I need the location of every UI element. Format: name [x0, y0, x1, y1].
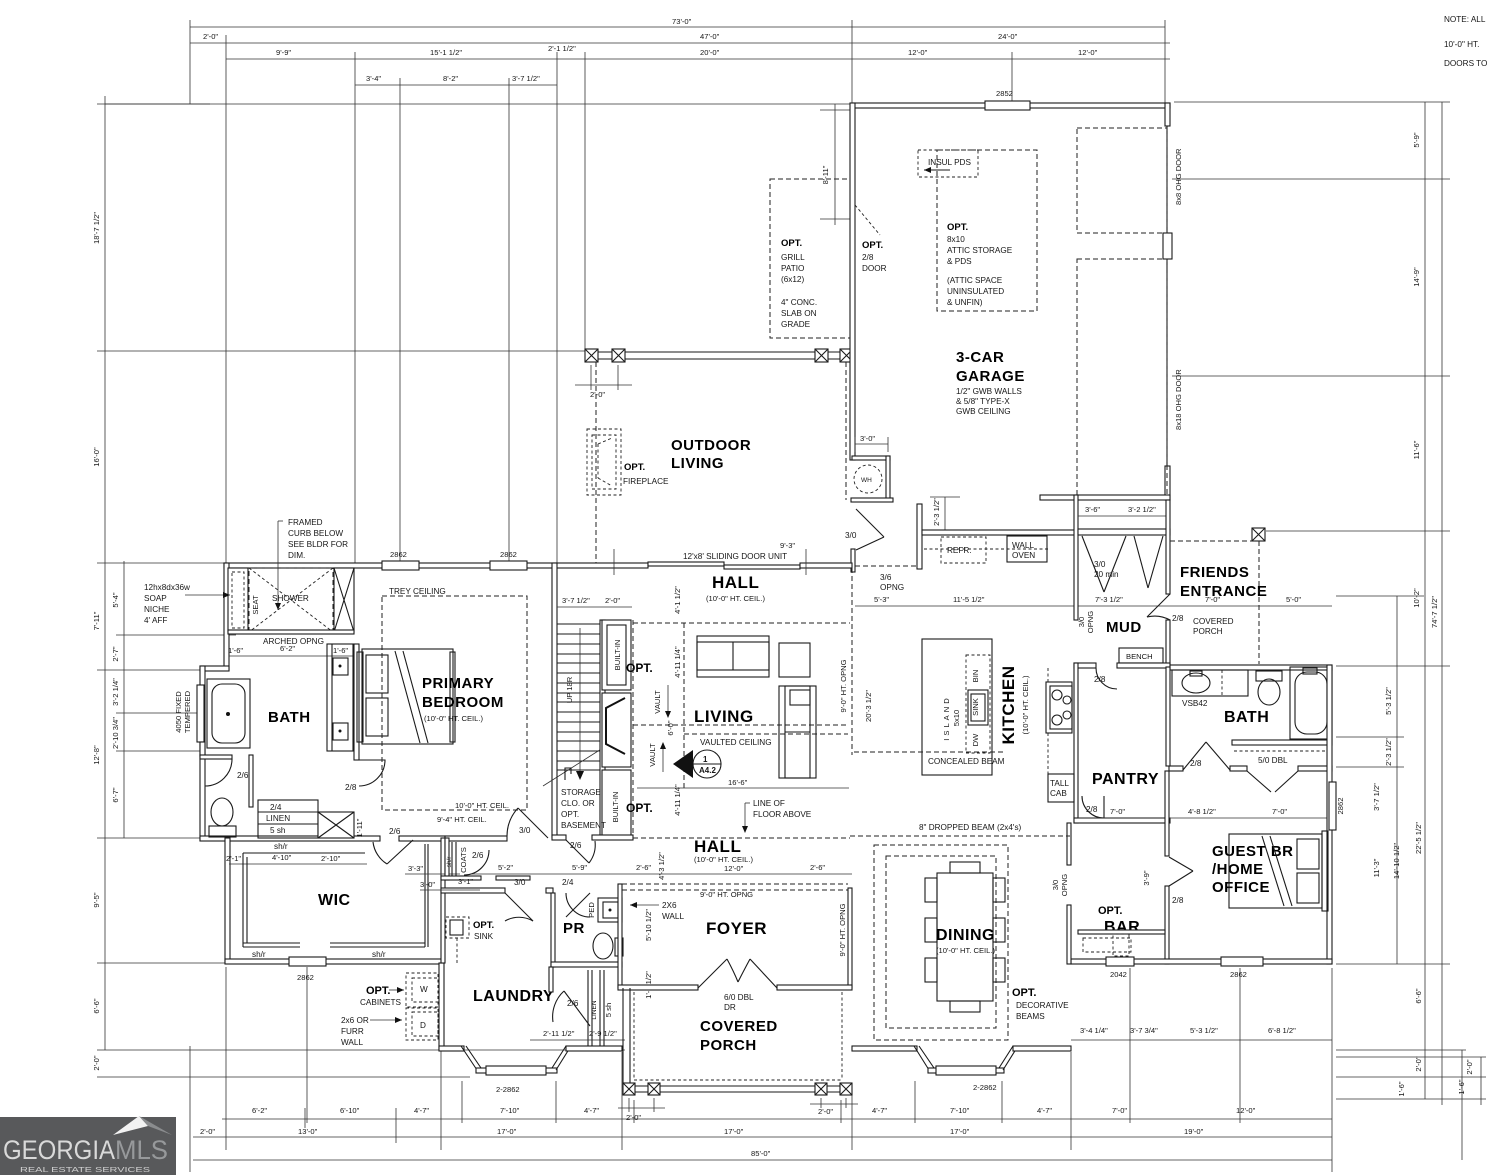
stair dims — [557, 606, 632, 608]
pantry dim row — [1078, 817, 1332, 819]
right exterior wall — [1327, 665, 1332, 964]
svg-text:7'-10": 7'-10" — [500, 1106, 520, 1115]
living opening dashed boundary — [633, 622, 850, 624]
svg-text:1'-6": 1'-6" — [228, 646, 243, 655]
svg-text:3'-2 1/4": 3'-2 1/4" — [111, 678, 120, 706]
svg-text:20'-3 1/2": 20'-3 1/2" — [864, 690, 873, 722]
top dim row 1: 73'-0" — [190, 26, 1165, 28]
svg-text:7'-0": 7'-0" — [1112, 1106, 1127, 1115]
svg-text:9'-4" HT. CEIL.: 9'-4" HT. CEIL. — [437, 815, 487, 824]
3/0 door from hall into mud (V leaf) — [856, 509, 884, 537]
svg-text:SEAT: SEAT — [251, 595, 260, 615]
svg-text:8x18 OHG DOOR: 8x18 OHG DOOR — [1174, 369, 1183, 430]
svg-text:10'-0" HT.: 10'-0" HT. — [1444, 40, 1479, 49]
bath/wic bottom wall — [200, 836, 380, 841]
svg-text:NICHE: NICHE — [144, 605, 170, 614]
16'-6" dim — [637, 787, 849, 789]
built-in lower — [602, 770, 631, 837]
island — [922, 639, 992, 775]
svg-text:3'-6": 3'-6" — [1085, 505, 1100, 514]
svg-text:2'-3 1/2": 2'-3 1/2" — [1384, 738, 1393, 766]
svg-text:9'-0" HT. OPNG: 9'-0" HT. OPNG — [700, 890, 753, 899]
svg-text:2'-11 1/2": 2'-11 1/2" — [543, 1029, 575, 1038]
svg-text:85'-0": 85'-0" — [751, 1149, 771, 1158]
opt sink — [446, 917, 469, 938]
posts — [623, 1083, 635, 1095]
svg-text:WH: WH — [861, 477, 872, 484]
svg-text:BASEMENT: BASEMENT — [561, 821, 606, 830]
tub — [207, 679, 250, 748]
svg-text:3/0: 3/0 — [1077, 617, 1086, 628]
svg-text:VAULTED CEILING: VAULTED CEILING — [700, 738, 772, 747]
bedroom east wall (shared w/ stairs) — [552, 563, 557, 837]
svg-text:D: D — [420, 1021, 426, 1030]
svg-text:LINEN: LINEN — [266, 814, 290, 823]
svg-text:12'-0": 12'-0" — [1078, 48, 1098, 57]
svg-text:5/0 DBL: 5/0 DBL — [1258, 756, 1288, 765]
svg-text:VAULT: VAULT — [653, 690, 662, 714]
refrigerator dashed — [941, 537, 986, 563]
svg-text:& 5/8" TYPE-X: & 5/8" TYPE-X — [956, 397, 1010, 406]
roof line above patio — [105, 103, 852, 105]
svg-text:STORAGE: STORAGE — [561, 788, 601, 797]
svg-text:SINK: SINK — [971, 698, 980, 716]
svg-text:7'-10": 7'-10" — [950, 1106, 970, 1115]
svg-text:5'-3": 5'-3" — [874, 595, 889, 604]
svg-text:12'-0": 12'-0" — [1236, 1106, 1256, 1115]
svg-text:3'-7 3/4": 3'-7 3/4" — [1130, 1026, 1158, 1035]
bottom extension verticals — [189, 1046, 191, 1172]
hall wall piece — [445, 836, 507, 841]
guest west wall — [1165, 771, 1169, 856]
svg-text:COVERED: COVERED — [1193, 617, 1234, 626]
svg-text:(ATTIC SPACE: (ATTIC SPACE — [947, 276, 1003, 285]
svg-text:SINK: SINK — [474, 932, 494, 941]
svg-text:9'-5": 9'-5" — [92, 892, 101, 907]
svg-text:22'-5 1/2": 22'-5 1/2" — [1414, 822, 1423, 854]
svg-text:2'-0": 2'-0" — [1414, 1056, 1423, 1071]
svg-text:6'-6": 6'-6" — [92, 998, 101, 1013]
opt fireplace dashed — [587, 429, 621, 495]
svg-text:4'-7": 4'-7" — [872, 1106, 887, 1115]
window 2852 — [985, 101, 1030, 110]
svg-text:4050 FIXED: 4050 FIXED — [174, 691, 183, 733]
svg-text:PRIMARY: PRIMARY — [422, 675, 494, 692]
svg-text:10'-0" HT. CEIL.: 10'-0" HT. CEIL. — [455, 801, 509, 810]
porch post + dashed — [1252, 528, 1265, 541]
dashed line right of built-ins — [632, 620, 634, 838]
garage top wall — [852, 103, 1170, 108]
dashed inner — [633, 992, 635, 1080]
svg-text:2'-0": 2'-0" — [203, 32, 218, 41]
svg-text:BUILT-IN: BUILT-IN — [611, 792, 620, 823]
svg-text:9'-9": 9'-9" — [276, 48, 291, 57]
svg-text:3/0: 3/0 — [1094, 560, 1106, 569]
svg-text:OPT.: OPT. — [862, 240, 883, 251]
svg-text:6'-8 1/2": 6'-8 1/2" — [1268, 1026, 1296, 1035]
insul pds dashed box — [918, 150, 978, 177]
svg-text:3/0: 3/0 — [519, 826, 531, 835]
svg-text:4'-8 1/2": 4'-8 1/2" — [1188, 807, 1216, 816]
svg-text:9'-0" HT. OPNG: 9'-0" HT. OPNG — [839, 659, 848, 712]
svg-text:ISLAND: ISLAND — [942, 695, 951, 740]
svg-text:OPT.: OPT. — [781, 238, 802, 249]
svg-text:REAL ESTATE SERVICES: REAL ESTATE SERVICES — [20, 1165, 150, 1174]
svg-text:12'-8": 12'-8" — [92, 745, 101, 765]
svg-text:FLOOR ABOVE: FLOOR ABOVE — [753, 810, 812, 819]
svg-text:2/6: 2/6 — [570, 841, 582, 850]
door 2/6 into WIC — [387, 840, 413, 864]
svg-text:2862: 2862 — [390, 550, 407, 559]
bottom wall guest wing w/ windows — [1071, 959, 1332, 964]
svg-text:ENTRANCE: ENTRANCE — [1180, 583, 1267, 600]
svg-text:BATH: BATH — [268, 709, 311, 726]
svg-text:BENCH: BENCH — [1126, 652, 1153, 661]
svg-text:FIREPLACE: FIREPLACE — [623, 477, 669, 486]
svg-text:4'-7": 4'-7" — [414, 1106, 429, 1115]
svg-text:9'-3": 9'-3" — [780, 541, 795, 550]
svg-text:CLO. OR: CLO. OR — [561, 799, 595, 808]
linen closet bottom — [258, 800, 318, 838]
built-in middle with niche — [602, 693, 631, 767]
porch boundary — [622, 988, 624, 1092]
svg-text:DOORS TO: DOORS TO — [1444, 59, 1487, 68]
garage door dashed bays — [1077, 128, 1167, 233]
svg-text:DR: DR — [724, 1003, 736, 1012]
svg-text:PATIO: PATIO — [781, 264, 804, 273]
bottom wall + bay — [852, 1046, 917, 1051]
svg-text:MUD: MUD — [1106, 619, 1142, 636]
svg-text:7'-0": 7'-0" — [1110, 807, 1125, 816]
svg-text:HALL: HALL — [694, 837, 741, 856]
svg-text:2'-10 3/4": 2'-10 3/4" — [111, 717, 120, 749]
svg-text:COATS: COATS — [459, 847, 468, 873]
kitchen east wall — [1074, 663, 1078, 823]
svg-text:4'-7": 4'-7" — [584, 1106, 599, 1115]
svg-text:(10'-0" HT. CEIL.): (10'-0" HT. CEIL.) — [424, 714, 483, 723]
svg-text:DECORATIVE: DECORATIVE — [1016, 1001, 1069, 1010]
svg-text:3-CAR: 3-CAR — [956, 349, 1004, 366]
svg-text:2-2862: 2-2862 — [496, 1085, 520, 1094]
svg-text:DOOR: DOOR — [862, 264, 887, 273]
top dim row 4: 3'-4", 8'-2", 3'-7 1/2" — [355, 84, 557, 86]
svg-text:/HOME: /HOME — [1212, 861, 1264, 878]
wall oven — [1007, 536, 1047, 562]
svg-text:1: 1 — [703, 755, 708, 764]
mud west wall — [1074, 495, 1078, 620]
svg-text:WALL: WALL — [341, 1038, 363, 1047]
svg-text:PANTRY: PANTRY — [1092, 771, 1159, 788]
stair direction arrow — [579, 628, 581, 775]
svg-text:3'-4 1/4": 3'-4 1/4" — [1080, 1026, 1108, 1035]
svg-text:sh/r: sh/r — [446, 856, 453, 868]
svg-text:2'-6": 2'-6" — [636, 863, 651, 872]
svg-text:13'-0": 13'-0" — [298, 1127, 318, 1136]
svg-text:BIN: BIN — [971, 670, 980, 683]
counter dashes — [1047, 668, 1049, 682]
svg-text:11'-5 1/2": 11'-5 1/2" — [953, 595, 985, 604]
svg-text:FRIENDS: FRIENDS — [1180, 564, 1249, 581]
svg-text:6'-6": 6'-6" — [1414, 988, 1423, 1003]
svg-text:4'-3 1/2": 4'-3 1/2" — [657, 852, 666, 880]
svg-text:3/6: 3/6 — [880, 573, 892, 582]
friends entrance wall w/ doors — [1078, 529, 1170, 535]
svg-text:2042: 2042 — [1110, 970, 1127, 979]
svg-text:PED: PED — [587, 902, 596, 918]
opt 2/8 door (dashed swing from garage wall) — [855, 205, 880, 235]
svg-text:LINE OF: LINE OF — [753, 799, 785, 808]
svg-text:VAULT: VAULT — [648, 743, 657, 767]
vanity — [327, 644, 353, 751]
svg-text:2/6: 2/6 — [237, 771, 249, 780]
svg-text:2'-6": 2'-6" — [810, 863, 825, 872]
2'-0 dims — [628, 1098, 630, 1112]
stair right wall — [600, 620, 605, 837]
svg-text:OPNG: OPNG — [880, 583, 904, 592]
svg-text:GWB CEILING: GWB CEILING — [956, 407, 1011, 416]
svg-text:4'-11 1/4": 4'-11 1/4" — [673, 784, 682, 816]
pantry — [1074, 818, 1170, 823]
svg-text:(6x12): (6x12) — [781, 275, 804, 284]
garage bottom-left wall + mud vestibule — [851, 498, 893, 502]
svg-text:DINING: DINING — [936, 927, 995, 944]
svg-text:12'-0": 12'-0" — [908, 48, 928, 57]
svg-text:GRILL: GRILL — [781, 253, 805, 262]
svg-text:5'-9": 5'-9" — [1412, 132, 1421, 147]
svg-text:5x10: 5x10 — [952, 710, 961, 726]
svg-text:2/8: 2/8 — [1086, 805, 1098, 814]
svg-text:BEAMS: BEAMS — [1016, 1012, 1045, 1021]
svg-text:5'-2": 5'-2" — [498, 863, 513, 872]
svg-text:4' AFF: 4' AFF — [144, 616, 167, 625]
svg-text:LIVING: LIVING — [671, 455, 724, 472]
mud south wall w/ 2/8 door — [1074, 663, 1096, 668]
svg-text:FOYER: FOYER — [706, 919, 767, 938]
front wall w/ double door — [618, 985, 698, 990]
hall lower walls — [441, 888, 505, 893]
svg-text:3'-0": 3'-0" — [420, 880, 435, 889]
svg-text:LIVING: LIVING — [694, 707, 754, 726]
svg-text:5'-9": 5'-9" — [572, 863, 587, 872]
svg-text:2/4: 2/4 — [562, 878, 574, 887]
bottom wall of stairs/storage w/ 2/6 door — [552, 835, 566, 840]
svg-text:NOTE: ALL: NOTE: ALL — [1444, 15, 1486, 24]
svg-text:3'-7 1/2": 3'-7 1/2" — [562, 596, 590, 605]
svg-text:WIC: WIC — [318, 892, 351, 909]
svg-text:KITCHEN: KITCHEN — [999, 665, 1018, 744]
svg-text:DIM.: DIM. — [288, 551, 305, 560]
tall cab — [1048, 774, 1074, 802]
svg-text:TREY CEILING: TREY CEILING — [389, 587, 446, 596]
svg-text:5 sh: 5 sh — [270, 826, 286, 835]
svg-text:OFFICE: OFFICE — [1212, 879, 1270, 896]
svg-text:2X6: 2X6 — [662, 901, 677, 910]
bed — [362, 649, 453, 744]
svg-text:OPT.: OPT. — [473, 920, 494, 931]
svg-text:19'-0": 19'-0" — [1184, 1127, 1204, 1136]
svg-text:SHOWER: SHOWER — [272, 594, 309, 603]
svg-text:2'-0": 2'-0" — [818, 1107, 833, 1116]
svg-text:3'-9": 3'-9" — [1142, 870, 1151, 885]
svg-text:2/8: 2/8 — [1190, 759, 1202, 768]
PR/linen wall — [551, 962, 622, 967]
tick marks at sliding door — [613, 549, 615, 575]
svg-text:PR: PR — [563, 920, 585, 937]
tub/closet wall — [1232, 740, 1332, 745]
svg-text:1'-11": 1'-11" — [355, 818, 364, 837]
svg-text:TEMPERED: TEMPERED — [183, 690, 192, 733]
svg-text:PORCH: PORCH — [1193, 627, 1223, 636]
8'-11" vertical dim — [834, 104, 836, 225]
svg-text:14'-10 1/2": 14'-10 1/2" — [1392, 843, 1401, 880]
2'-3 1/2" dim — [944, 497, 946, 530]
bottom inner dims — [1071, 1039, 1332, 1041]
svg-text:17'-0": 17'-0" — [950, 1127, 970, 1136]
patio posts — [585, 349, 598, 362]
svg-text:3'-3": 3'-3" — [408, 864, 423, 873]
shelf lines top — [243, 852, 365, 854]
svg-text:17'-0": 17'-0" — [724, 1127, 744, 1136]
svg-text:14'-9": 14'-9" — [1412, 267, 1421, 287]
svg-text:(10'-0" HT. CEIL.): (10'-0" HT. CEIL.) — [694, 855, 753, 864]
svg-text:7'-0": 7'-0" — [1272, 807, 1287, 816]
left wall lower — [200, 666, 205, 756]
built-in upper — [602, 620, 631, 690]
jog at bath — [200, 666, 229, 671]
wall dining/guest with 3/0 opening — [1067, 823, 1071, 865]
svg-text:1'-6": 1'-6" — [1397, 1081, 1406, 1096]
svg-text:5'-10 1/2": 5'-10 1/2" — [644, 909, 653, 941]
toilet — [211, 798, 233, 826]
linen closet — [549, 967, 553, 992]
opt grill patio dashed rect — [770, 179, 852, 338]
bench — [1119, 648, 1163, 663]
svg-text:2'-0": 2'-0" — [590, 390, 605, 399]
svg-text:SEE BLDR FOR: SEE BLDR FOR — [288, 540, 348, 549]
left dim vertical lines — [104, 96, 106, 1050]
svg-text:sh/r: sh/r — [372, 950, 386, 959]
svg-text:16'-6": 16'-6" — [728, 778, 748, 787]
svg-text:UNINSULATED: UNINSULATED — [947, 287, 1004, 296]
side chair — [779, 643, 810, 677]
svg-text:2'-0": 2'-0" — [1465, 1059, 1474, 1074]
sofa top — [697, 636, 769, 677]
svg-text:4'-1 1/2": 4'-1 1/2" — [673, 586, 682, 614]
WIC bottom wall with window — [225, 959, 443, 964]
svg-text:11'-3": 11'-3" — [1372, 858, 1381, 877]
svg-text:& UNFIN): & UNFIN) — [947, 298, 983, 307]
3/6 opening dashed — [855, 565, 917, 567]
svg-text:OPT.: OPT. — [626, 801, 653, 815]
garage right wall segments with door openings — [1165, 103, 1170, 126]
garage bottom wall right part — [1040, 495, 1170, 500]
svg-text:12'x8' SLIDING DOOR UNIT: 12'x8' SLIDING DOOR UNIT — [683, 552, 787, 561]
svg-text:SOAP: SOAP — [144, 594, 167, 603]
svg-text:GARAGE: GARAGE — [956, 368, 1025, 385]
garage left wall — [850, 103, 855, 460]
svg-text:3'-7 1/2": 3'-7 1/2" — [1372, 783, 1381, 811]
kitchen north wall — [922, 530, 1078, 535]
svg-text:7'-3 1/2": 7'-3 1/2" — [1095, 595, 1123, 604]
svg-text:SLAB ON: SLAB ON — [781, 309, 817, 318]
svg-text:CAB: CAB — [1050, 789, 1067, 798]
svg-text:8'-11": 8'-11" — [821, 165, 830, 184]
svg-text:4'-7": 4'-7" — [1037, 1106, 1052, 1115]
svg-text:8x10: 8x10 — [947, 235, 965, 244]
svg-text:1'-6": 1'-6" — [1457, 1079, 1466, 1094]
sofa right vertical — [779, 686, 816, 778]
svg-text:LINEN: LINEN — [591, 1000, 598, 1019]
dims — [229, 863, 367, 865]
svg-text:6'-7": 6'-7" — [111, 787, 120, 802]
svg-text:2'-1": 2'-1" — [226, 854, 241, 863]
foyer east wall — [848, 888, 852, 988]
svg-text:5'-3 1/2": 5'-3 1/2" — [1190, 1026, 1218, 1035]
window 4050 behind tub — [197, 685, 204, 742]
svg-text:1'-6": 1'-6" — [333, 646, 348, 655]
top dim row 3: 9'-9", 15'-1 1/2", 2'-1 1/2", 20'-0", 12'-0", 12'-0" — [226, 58, 1170, 60]
svg-text:2x6 OR: 2x6 OR — [341, 1016, 369, 1025]
inner shelf boundary — [242, 853, 244, 947]
PR room — [551, 893, 555, 967]
table — [937, 873, 993, 1001]
svg-text:10'-2": 10'-2" — [1412, 588, 1421, 608]
svg-text:BEDROOM: BEDROOM — [422, 694, 504, 711]
svg-text:(10'-0" HT. CEIL.): (10'-0" HT. CEIL.) — [706, 594, 765, 603]
svg-text:8'-2": 8'-2" — [443, 74, 458, 83]
svg-text:CURB BELOW: CURB BELOW — [288, 529, 343, 538]
toilet — [1256, 671, 1282, 681]
svg-text:OPT.: OPT. — [626, 661, 653, 675]
svg-text:MLS: MLS — [115, 1135, 168, 1165]
svg-text:3'-1": 3'-1" — [458, 877, 473, 886]
coats closet — [445, 838, 449, 880]
laundry bottom + bay window — [439, 1046, 464, 1051]
svg-text:GRADE: GRADE — [781, 320, 811, 329]
svg-text:3'-7 1/2": 3'-7 1/2" — [512, 74, 540, 83]
svg-text:2/8: 2/8 — [345, 783, 357, 792]
svg-text:6'-2": 6'-2" — [252, 1106, 267, 1115]
attic storage dashed box — [937, 150, 1037, 311]
svg-text:2/8: 2/8 — [1172, 896, 1184, 905]
svg-text:6'-0": 6'-0" — [666, 720, 675, 735]
laundry left wall — [439, 963, 444, 1050]
top vertical extension lines — [189, 20, 191, 104]
svg-text:3'-0": 3'-0" — [860, 434, 875, 443]
svg-text:7'-11": 7'-11" — [92, 611, 101, 630]
svg-text:(10'-0" HT. CEIL.): (10'-0" HT. CEIL.) — [936, 946, 995, 955]
svg-text:4'-11 1/4": 4'-11 1/4" — [673, 646, 682, 678]
shower dashed — [249, 568, 333, 632]
corridor dim row — [855, 605, 1332, 607]
svg-text:2'-10": 2'-10" — [321, 854, 341, 863]
svg-text:WALL: WALL — [662, 912, 684, 921]
bottom dim rows — [222, 1118, 1332, 1120]
svg-text:47'-0": 47'-0" — [700, 32, 720, 41]
svg-text:ATTIC STORAGE: ATTIC STORAGE — [947, 246, 1013, 255]
trey ceiling dashed — [382, 596, 527, 810]
svg-text:2862: 2862 — [500, 550, 517, 559]
bed — [1229, 834, 1322, 908]
svg-text:2/6: 2/6 — [389, 827, 401, 836]
svg-text:6'-10": 6'-10" — [340, 1106, 360, 1115]
svg-text:OPT.: OPT. — [947, 222, 968, 233]
svg-text:OVEN: OVEN — [1012, 551, 1035, 560]
svg-text:UP 18R: UP 18R — [565, 676, 574, 703]
svg-text:HALL: HALL — [712, 573, 759, 592]
svg-text:4'-10": 4'-10" — [272, 853, 292, 862]
svg-text:3/0: 3/0 — [514, 878, 526, 887]
